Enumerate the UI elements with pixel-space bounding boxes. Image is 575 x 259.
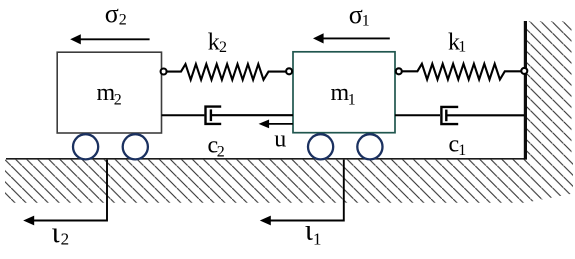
svg-text:2: 2 [119,11,127,28]
label sigma1 [349,0,370,30]
displacement marker iota1 [260,160,344,226]
damper c2 rod left [162,114,205,116]
damper c2 rod right [212,114,293,116]
ground line [6,158,526,160]
wheel m1 left [308,134,333,159]
node k1-wall [521,68,527,74]
svg-text:1: 1 [458,38,466,55]
label iota2 [52,216,70,249]
svg-text:ι: ι [52,216,60,249]
svg-text:m: m [97,80,116,106]
label k2 [208,29,227,56]
svg-text:u: u [274,126,286,152]
damper c1 cup [441,107,458,124]
label m1 [331,80,356,109]
damper c1 rod right [447,114,524,116]
node k2-m1 [286,68,292,74]
damper c2 piston [210,109,212,121]
damper c2 cup [206,107,222,124]
label c2 [208,133,225,161]
label sigma2 [105,0,127,28]
label u [274,126,286,152]
ground hatch band [5,160,573,203]
arrow sigma1 [313,33,390,43]
node m1-k1 [396,68,402,74]
label c1 [449,131,467,158]
svg-text:1: 1 [458,142,466,159]
arrow u [259,120,293,129]
svg-text:σ: σ [105,0,119,28]
wheel m2 right [123,134,148,159]
spring k1 [402,64,521,80]
wheel m1 right [357,134,382,159]
svg-text:k: k [208,29,220,55]
label iota1 [305,214,322,249]
svg-text:m: m [331,80,350,106]
wall [524,21,527,160]
svg-text:2: 2 [217,144,225,161]
arrow sigma2 [70,34,149,44]
wall hatch [527,21,572,159]
node m2-k2 [161,69,167,75]
svg-text:2: 2 [219,39,227,56]
mass m2 box [57,52,161,133]
svg-text:σ: σ [349,0,363,29]
displacement marker iota2 [23,160,107,226]
spring k2 [167,64,286,80]
damper c1 rod left [395,114,440,116]
svg-text:2: 2 [114,92,122,109]
mass m1 box [293,52,395,133]
svg-text:2: 2 [61,230,70,249]
damper c1 piston [445,110,447,122]
svg-text:1: 1 [348,92,356,109]
wheel m2 left [73,134,98,159]
label m2 [97,80,122,109]
svg-text:1: 1 [362,13,370,30]
label k1 [448,30,466,56]
svg-text:1: 1 [313,229,322,248]
svg-text:ι: ι [305,214,313,247]
